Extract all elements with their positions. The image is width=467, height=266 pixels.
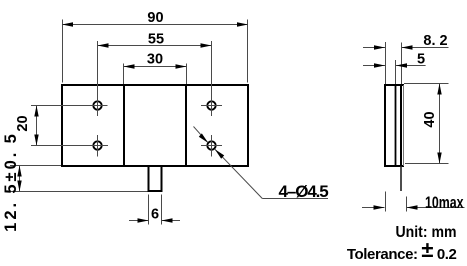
svg-text:55: 55 xyxy=(148,31,164,47)
svg-text:90: 90 xyxy=(147,10,163,26)
svg-text:30: 30 xyxy=(147,51,163,67)
svg-text:4–Ø4.5: 4–Ø4.5 xyxy=(279,182,329,201)
svg-text:20: 20 xyxy=(15,115,31,131)
svg-text:10max: 10max xyxy=(425,193,464,212)
svg-text:40: 40 xyxy=(422,111,438,127)
svg-text:5: 5 xyxy=(417,51,425,67)
svg-text:6: 6 xyxy=(151,207,159,223)
svg-text:8. 2: 8. 2 xyxy=(423,33,447,49)
svg-text:12. 5±0. 5: 12. 5±0. 5 xyxy=(2,131,20,232)
